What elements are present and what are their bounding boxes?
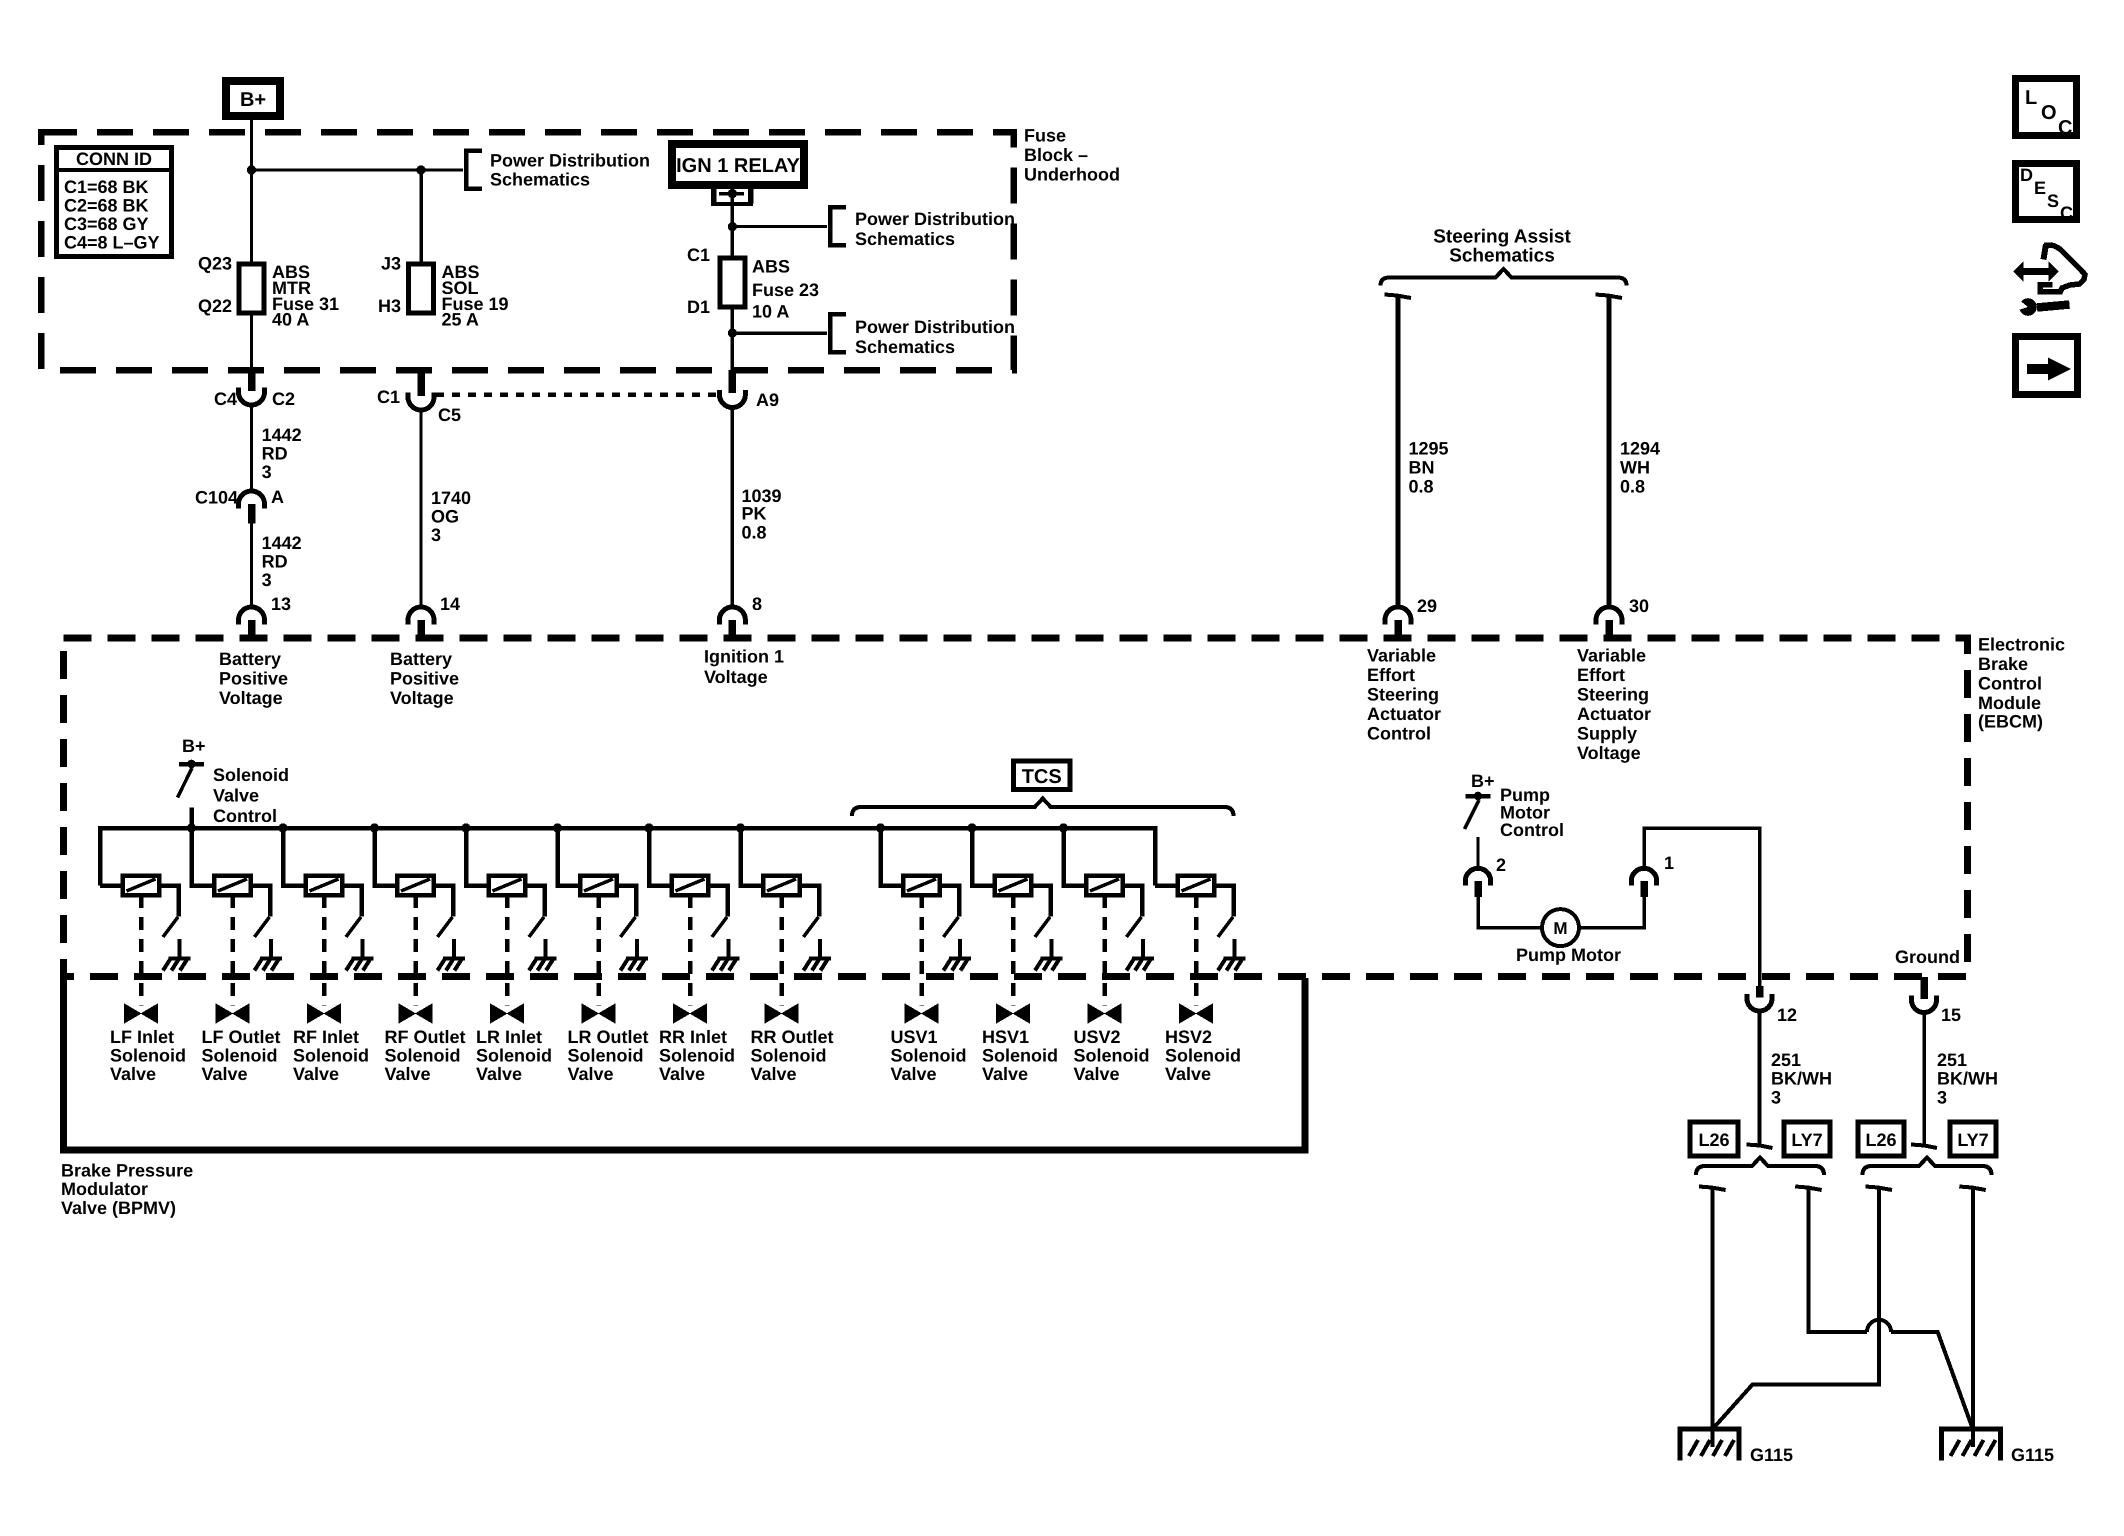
switch blade RR Inlet	[712, 917, 727, 937]
ground symbol RF Inlet	[352, 957, 374, 961]
wire pump switch to connector 2	[1477, 837, 1480, 868]
brace option group first	[1696, 1158, 1824, 1176]
svg-text:12: 12	[1777, 1005, 1797, 1025]
junction node feed LF Outlet	[187, 823, 196, 832]
svg-text:RF Inlet: RF Inlet	[293, 1027, 359, 1047]
valve coil dashed link RF Outlet	[413, 895, 418, 1006]
brace TCS	[852, 799, 1234, 817]
svg-text:Voltage: Voltage	[219, 688, 283, 708]
TCS box	[1014, 761, 1071, 790]
pump connector 2	[1465, 868, 1490, 885]
svg-text:C1: C1	[377, 387, 400, 407]
relay coil HSV1	[995, 876, 1032, 896]
svg-text:D: D	[2020, 165, 2033, 185]
coil output wire LF Outlet	[251, 886, 270, 917]
svg-text:1442: 1442	[262, 533, 302, 553]
coil output wire HSV2	[1214, 886, 1233, 917]
svg-text:HSV1: HSV1	[982, 1027, 1029, 1047]
svg-text:C5: C5	[438, 405, 461, 425]
junction node feed USV2	[1059, 823, 1068, 832]
ground symbol LR Outlet	[626, 957, 648, 961]
svg-text:Valve: Valve	[659, 1064, 705, 1084]
svg-text:Valve: Valve	[1165, 1064, 1211, 1084]
svg-text:Effort: Effort	[1577, 665, 1625, 685]
svg-text:Solenoid: Solenoid	[751, 1046, 827, 1066]
feed wire group USV2	[1064, 828, 1087, 886]
solenoid bus wire	[100, 828, 1155, 886]
svg-text:Voltage: Voltage	[390, 688, 454, 708]
svg-text:Ignition 1: Ignition 1	[704, 647, 784, 667]
svg-text:Solenoid: Solenoid	[1165, 1046, 1241, 1066]
connector C104	[239, 491, 265, 508]
switch lower contact HSV1	[1050, 939, 1054, 958]
wire branch to power distribution bracket 2	[732, 225, 827, 228]
svg-text:WH: WH	[1620, 458, 1650, 478]
svg-text:Solenoid: Solenoid	[385, 1046, 461, 1066]
svg-text:RR Inlet: RR Inlet	[659, 1027, 727, 1047]
svg-text:IGN 1 RELAY: IGN 1 RELAY	[676, 155, 800, 177]
svg-text:Control: Control	[1367, 724, 1431, 744]
svg-text:Power Distribution: Power Distribution	[855, 317, 1015, 337]
switch lower contact LR Outlet	[635, 939, 639, 958]
svg-text:Battery: Battery	[390, 649, 452, 669]
svg-text:3: 3	[262, 462, 272, 482]
ground symbol LF Outlet	[260, 957, 282, 961]
relay box IGN 1 RELAY	[672, 144, 804, 185]
ground symbol USV2	[1132, 957, 1154, 961]
svg-text:Control: Control	[1500, 820, 1564, 840]
svg-text:Q23: Q23	[198, 254, 232, 274]
svg-text:3: 3	[1771, 1088, 1781, 1108]
valve coil dashed link LR Outlet	[596, 895, 601, 1006]
B+ terminal dot and bar pump motor	[1474, 792, 1483, 801]
svg-text:Solenoid: Solenoid	[202, 1046, 278, 1066]
off-page bracket power distribution 1	[466, 151, 482, 189]
switch blade HSV1	[1035, 917, 1050, 937]
svg-text:Valve: Valve	[476, 1064, 522, 1084]
B+ terminal dot and bar solenoid valve control	[187, 760, 196, 769]
svg-text:B+: B+	[182, 736, 206, 756]
switch lower contact LR Inlet	[544, 939, 548, 958]
pin 13 connector	[239, 607, 265, 624]
coil output wire LR Outlet	[617, 886, 636, 917]
svg-text:Valve: Valve	[202, 1064, 248, 1084]
valve symbol LF Inlet	[125, 1005, 157, 1022]
svg-text:Brake: Brake	[1978, 654, 2028, 674]
junction node feed USV1	[876, 823, 885, 832]
svg-text:C104: C104	[195, 488, 238, 508]
icon arrow box	[2016, 337, 2078, 395]
ground symbol RR Outlet	[809, 957, 831, 961]
valve symbol RF Outlet	[400, 1005, 432, 1022]
svg-text:Block –: Block –	[1024, 145, 1088, 165]
feed wire group RR Outlet	[741, 828, 764, 886]
svg-text:8: 8	[752, 594, 762, 614]
svg-text:USV2: USV2	[1074, 1027, 1121, 1047]
svg-text:Schematics: Schematics	[490, 170, 590, 190]
svg-text:Voltage: Voltage	[1577, 743, 1641, 763]
ground symbol HSV1	[1041, 957, 1063, 961]
svg-text:Fuse 23: Fuse 23	[752, 280, 819, 300]
valve symbol USV2	[1089, 1005, 1121, 1022]
svg-text:L26: L26	[1698, 1130, 1729, 1150]
fuse F19 ABS SOL	[409, 264, 434, 313]
svg-text:C4: C4	[214, 389, 237, 409]
relay coil LF Outlet	[214, 876, 251, 896]
relay coil RF Outlet	[397, 876, 434, 896]
valve coil dashed link RR Outlet	[779, 895, 784, 1006]
off-page bracket power distribution 2	[830, 207, 846, 245]
coil output wire USV2	[1123, 886, 1142, 917]
svg-text:40 A: 40 A	[272, 310, 309, 330]
relay coil HSV2	[1178, 876, 1215, 896]
svg-text:Variable: Variable	[1577, 646, 1646, 666]
svg-text:Valve: Valve	[568, 1064, 614, 1084]
svg-text:BK/WH: BK/WH	[1771, 1069, 1832, 1089]
junction node below fuse 23	[728, 328, 737, 337]
svg-text:Actuator: Actuator	[1577, 704, 1651, 724]
valve symbol USV1	[906, 1005, 938, 1022]
svg-text:0.8: 0.8	[742, 523, 767, 543]
pump connector 1	[1631, 868, 1656, 885]
svg-text:Positive: Positive	[219, 669, 288, 689]
valve coil dashed link LR Inlet	[505, 895, 510, 1006]
brace steering assist	[1381, 269, 1627, 286]
valve symbol LR Inlet	[491, 1005, 523, 1022]
svg-text:251: 251	[1771, 1050, 1801, 1070]
svg-text:LY7: LY7	[1957, 1130, 1988, 1150]
switch lower contact LF Inlet	[178, 939, 182, 958]
svg-text:Valve: Valve	[110, 1064, 156, 1084]
svg-text:15: 15	[1941, 1005, 1961, 1025]
svg-text:H3: H3	[378, 296, 401, 316]
svg-text:Supply: Supply	[1577, 724, 1637, 744]
svg-text:1295: 1295	[1409, 439, 1449, 459]
coil output wire RF Inlet	[342, 886, 361, 917]
svg-text:C1: C1	[687, 245, 710, 265]
valve coil dashed link HSV1	[1011, 895, 1016, 1006]
svg-text:Effort: Effort	[1367, 665, 1415, 685]
stub into connector A9	[729, 370, 737, 393]
relay contact symbol under IGN 1 RELAY	[711, 187, 717, 204]
switch blade USV1	[944, 917, 959, 937]
svg-text:L: L	[2025, 87, 2037, 109]
svg-text:Solenoid: Solenoid	[659, 1046, 735, 1066]
switch blade LR Outlet	[621, 917, 636, 937]
svg-text:Steering: Steering	[1367, 685, 1439, 705]
svg-text:TCS: TCS	[1022, 766, 1062, 788]
svg-text:Control: Control	[1978, 674, 2042, 694]
svg-text:B+: B+	[240, 89, 266, 111]
svg-text:LF Inlet: LF Inlet	[110, 1027, 174, 1047]
valve coil dashed link LF Outlet	[230, 895, 235, 1006]
valve coil dashed link LF Inlet	[139, 895, 144, 1006]
relay coil LF Inlet	[123, 876, 160, 896]
switch lower contact RF Outlet	[452, 939, 456, 958]
svg-text:D1: D1	[687, 297, 710, 317]
ground wire LY7 second	[1971, 1189, 1975, 1447]
junction node feed LR Outlet	[553, 823, 562, 832]
switch blade RF Outlet	[438, 917, 453, 937]
valve symbol HSV2	[1180, 1005, 1212, 1022]
stub below pump connector 2	[1474, 881, 1482, 897]
brace option group second	[1863, 1158, 1992, 1176]
relay coil RF Inlet	[306, 876, 343, 896]
svg-text:Valve: Valve	[213, 786, 259, 806]
ground symbol LR Inlet	[535, 957, 557, 961]
svg-text:Electronic: Electronic	[1978, 635, 2065, 655]
pin 29 connector	[1385, 607, 1411, 625]
option box LY7 second	[1950, 1122, 1996, 1156]
coil output wire RR Outlet	[800, 886, 819, 917]
ground symbol RF Outlet	[443, 957, 465, 961]
svg-text:Actuator: Actuator	[1367, 704, 1441, 724]
junction node feed RR Inlet	[644, 823, 653, 832]
ground symbol RR Inlet	[718, 957, 740, 961]
pump motor M	[1542, 909, 1579, 946]
svg-text:Schematics: Schematics	[855, 337, 955, 357]
pin 12 connector	[1747, 994, 1772, 1011]
wire branch to power distribution bracket	[252, 169, 464, 172]
switch lower contact USV2	[1141, 939, 1145, 958]
junction node feed LR Inlet	[461, 823, 470, 832]
svg-text:LF Outlet: LF Outlet	[202, 1027, 281, 1047]
svg-text:CONN ID: CONN ID	[76, 149, 152, 169]
power symbol B+ box	[226, 81, 280, 116]
svg-text:RD: RD	[262, 552, 288, 572]
wire fuse31 to connector C4/C2	[250, 313, 253, 372]
fuse F31 ABS MTR	[239, 264, 264, 313]
connector A9	[719, 390, 745, 408]
svg-text:C: C	[2058, 117, 2072, 139]
wire connector 1 to pin 12	[1644, 828, 1760, 986]
coil output wire RR Inlet	[708, 886, 727, 917]
stub below C104	[248, 504, 256, 524]
switch lower contact USV1	[958, 939, 962, 958]
svg-text:0.8: 0.8	[1620, 477, 1645, 497]
wire connector 2 to pump motor	[1478, 897, 1542, 928]
relay coil LR Outlet	[580, 876, 617, 896]
svg-text:0.8: 0.8	[1409, 477, 1434, 497]
svg-text:USV1: USV1	[891, 1027, 938, 1047]
svg-text:C2: C2	[272, 389, 295, 409]
svg-text:3: 3	[431, 525, 441, 545]
ground G115 first	[1680, 1429, 1739, 1461]
svg-text:J3: J3	[381, 254, 401, 274]
svg-text:RR Outlet: RR Outlet	[751, 1027, 834, 1047]
junction node feed RR Outlet	[736, 823, 745, 832]
valve coil dashed link RF Inlet	[322, 895, 327, 1006]
svg-text:C1=68 BK: C1=68 BK	[64, 177, 149, 197]
svg-text:M: M	[1553, 919, 1567, 938]
relay coil RR Inlet	[672, 876, 709, 896]
svg-text:30: 30	[1629, 596, 1649, 616]
svg-text:Power Distribution: Power Distribution	[490, 151, 650, 171]
ground wire LY7 second hook	[1959, 1187, 1986, 1191]
wire pin 15 to splice	[1922, 1013, 1926, 1147]
svg-text:Solenoid: Solenoid	[110, 1046, 186, 1066]
svg-text:Valve: Valve	[982, 1064, 1028, 1084]
svg-text:A9: A9	[756, 390, 779, 410]
ground G115 second	[1942, 1429, 2001, 1461]
wire fuse 23 down to A9	[731, 307, 735, 370]
svg-text:1442: 1442	[262, 425, 302, 445]
dotted option line C5 to A9	[436, 392, 716, 397]
valve symbol RR Inlet	[674, 1005, 706, 1022]
wire C5 to pin 14	[420, 411, 423, 608]
off-page bracket power distribution 3	[830, 314, 846, 352]
junction node at fuse 19 branch	[416, 165, 425, 174]
svg-text:S: S	[2047, 191, 2059, 211]
svg-text:Valve: Valve	[891, 1064, 937, 1084]
option box LY7 first	[1784, 1122, 1830, 1156]
svg-text:PK: PK	[742, 504, 767, 524]
valve symbol RF Inlet	[308, 1005, 340, 1022]
ground symbol HSV2	[1224, 957, 1246, 961]
svg-text:Valve: Valve	[293, 1064, 339, 1084]
svg-text:25 A: 25 A	[442, 310, 479, 330]
svg-text:BN: BN	[1409, 458, 1435, 478]
svg-text:Solenoid: Solenoid	[213, 765, 289, 785]
feed wire group LF Outlet	[192, 828, 215, 886]
junction node at B+ wire	[247, 165, 256, 174]
switch blade LR Inlet	[529, 917, 544, 937]
ground wire LY7 first	[1809, 1189, 1867, 1332]
junction node feed RF Outlet	[370, 823, 379, 832]
svg-text:C2=68 BK: C2=68 BK	[64, 196, 149, 216]
valve coil dashed link RR Inlet	[688, 895, 693, 1006]
svg-text:Modulator: Modulator	[61, 1179, 148, 1199]
fuse block underhood dashed box	[41, 132, 1014, 370]
svg-text:Valve: Valve	[751, 1064, 797, 1084]
connector C1/C5	[408, 393, 434, 411]
svg-text:Brake Pressure: Brake Pressure	[61, 1160, 193, 1180]
coil output wire LF Inlet	[159, 886, 178, 917]
switch lower contact HSV2	[1233, 939, 1237, 958]
svg-text:Power Distribution: Power Distribution	[855, 209, 1015, 229]
switch blade USV2	[1127, 917, 1142, 937]
pin 30 connector	[1596, 607, 1622, 625]
svg-text:29: 29	[1417, 596, 1437, 616]
splice hook wire 12	[1747, 1145, 1773, 1149]
svg-text:RD: RD	[262, 444, 288, 464]
switch blade LF Inlet	[163, 917, 178, 937]
svg-text:Solenoid: Solenoid	[568, 1046, 644, 1066]
wire C2 to C104	[250, 406, 253, 493]
wire branch down to fuse 19	[419, 170, 423, 264]
svg-text:OG: OG	[431, 507, 459, 527]
junction node above fuse 23	[728, 222, 737, 231]
splice hook wire 15	[1911, 1145, 1937, 1149]
svg-text:1294: 1294	[1620, 439, 1660, 459]
wire A9 to pin 8	[731, 408, 735, 608]
svg-text:Positive: Positive	[390, 669, 459, 689]
svg-text:Steering Assist: Steering Assist	[1433, 227, 1571, 248]
ground symbol LF Inlet	[169, 957, 191, 961]
ground wire L26 first hook	[1699, 1187, 1726, 1191]
option box L26 second	[1858, 1122, 1904, 1156]
valve symbol LF Outlet	[217, 1005, 249, 1022]
svg-text:3: 3	[1937, 1088, 1947, 1108]
BPMV box	[64, 978, 1306, 1150]
stub into pin 12	[1756, 986, 1764, 998]
junction node feed HSV1	[967, 823, 976, 832]
svg-text:Valve: Valve	[1074, 1064, 1120, 1084]
feed wire group RR Inlet	[649, 828, 672, 886]
svg-text:251: 251	[1937, 1050, 1967, 1070]
ground wire LY7 first hook	[1795, 1187, 1822, 1191]
switch blade RR Outlet	[804, 917, 819, 937]
icon LOC box	[2016, 79, 2077, 136]
svg-text:Battery: Battery	[219, 649, 281, 669]
feed wire group HSV2	[1155, 883, 1178, 888]
icon DESC box	[2016, 164, 2077, 220]
svg-text:13: 13	[271, 594, 291, 614]
valve symbol RR Outlet	[766, 1005, 798, 1022]
svg-text:O: O	[2041, 102, 2057, 124]
svg-text:LR Inlet: LR Inlet	[476, 1027, 542, 1047]
coil output wire LR Inlet	[525, 886, 544, 917]
fuse F23 ABS	[720, 258, 745, 307]
valve symbol HSV1	[997, 1005, 1029, 1022]
svg-text:Valve: Valve	[385, 1064, 431, 1084]
svg-text:2: 2	[1496, 855, 1506, 875]
pin 14 connector	[408, 607, 434, 625]
wire 1295 BN	[1396, 297, 1401, 607]
svg-text:A: A	[271, 487, 284, 507]
stub into pin 15	[1920, 977, 1928, 999]
pin 8 connector	[719, 607, 745, 624]
feed wire group LR Outlet	[558, 828, 581, 886]
svg-text:C4=8 L–GY: C4=8 L–GY	[64, 233, 160, 253]
svg-text:Underhood: Underhood	[1024, 165, 1120, 185]
wire B+ down to fuse 31	[250, 120, 253, 264]
svg-text:BK/WH: BK/WH	[1937, 1069, 1998, 1089]
switch blade RF Inlet	[346, 917, 361, 937]
svg-text:HSV2: HSV2	[1165, 1027, 1212, 1047]
valve coil dashed link USV1	[919, 895, 924, 1006]
svg-text:Control: Control	[213, 806, 277, 826]
pin 15 connector	[1912, 996, 1937, 1013]
wire relay to fuse 23	[731, 196, 735, 258]
svg-text:Solenoid: Solenoid	[982, 1046, 1058, 1066]
feed wire group LR Inlet	[466, 828, 489, 886]
svg-text:Variable: Variable	[1367, 646, 1436, 666]
svg-text:Fuse: Fuse	[1024, 126, 1066, 146]
svg-text:C3=68 GY: C3=68 GY	[64, 214, 149, 234]
switch blade LF Outlet	[255, 917, 270, 937]
svg-text:Ground: Ground	[1895, 947, 1960, 967]
svg-text:Solenoid: Solenoid	[293, 1046, 369, 1066]
svg-text:10 A: 10 A	[752, 302, 789, 322]
svg-text:Steering: Steering	[1577, 685, 1649, 705]
wire branch to power distribution bracket 3	[732, 331, 827, 335]
svg-text:Schematics: Schematics	[1449, 246, 1555, 267]
feed wire group USV1	[881, 828, 904, 886]
switch lower contact RR Inlet	[727, 939, 731, 958]
svg-text:G115: G115	[1750, 1445, 1793, 1465]
svg-text:Q22: Q22	[198, 296, 232, 316]
valve coil dashed link HSV2	[1194, 895, 1199, 1006]
svg-text:1: 1	[1664, 853, 1674, 873]
svg-text:Valve (BPMV): Valve (BPMV)	[61, 1198, 176, 1218]
ground wire L26 first	[1711, 1189, 1715, 1447]
feed wire group HSV1	[972, 828, 995, 886]
relay coil USV1	[903, 876, 940, 896]
ground symbol USV1	[949, 957, 971, 961]
wire 1294 WH	[1607, 297, 1612, 607]
switch blade HSV2	[1218, 917, 1233, 937]
